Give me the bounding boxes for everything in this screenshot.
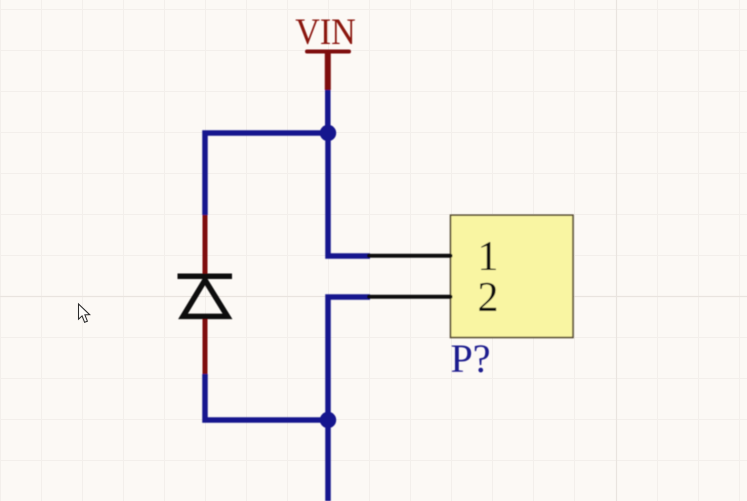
diode pin (cathode side, maroon) bbox=[203, 215, 208, 274]
pin 1 of P? bbox=[369, 254, 451, 258]
wire top junction to diode top bbox=[205, 133, 328, 215]
diode symbol bbox=[178, 276, 233, 316]
junction top bbox=[320, 125, 336, 141]
pin 2 of P? bbox=[369, 295, 451, 299]
power port VIN bbox=[295, 12, 356, 90]
wire pin 2 to bottom junction bbox=[328, 297, 370, 420]
wire bottom junction down off-screen bbox=[325, 420, 331, 501]
svg-text:2: 2 bbox=[478, 275, 499, 321]
svg-text:P?: P? bbox=[451, 336, 491, 381]
mouse cursor bbox=[79, 304, 90, 322]
svg-text:VIN: VIN bbox=[295, 12, 356, 53]
wire VIN to top junction bbox=[325, 90, 331, 133]
diode pin (anode side, maroon) bbox=[203, 318, 208, 374]
junction bottom bbox=[320, 412, 336, 428]
svg-text:1: 1 bbox=[478, 234, 499, 280]
wire diode bottom to bottom junction bbox=[205, 374, 328, 420]
connector P? body bbox=[451, 215, 574, 337]
wire top junction to pin 1 bbox=[328, 133, 370, 256]
